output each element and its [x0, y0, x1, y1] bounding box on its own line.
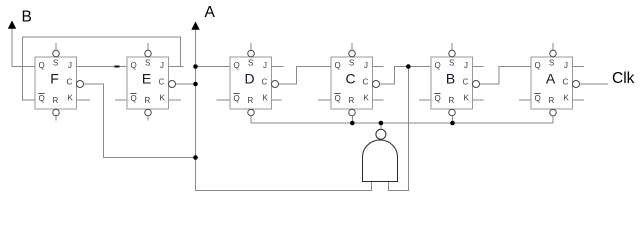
svg-text:F: F: [50, 71, 59, 87]
svg-text:K: K: [364, 94, 370, 103]
svg-text:Q: Q: [535, 94, 541, 103]
svg-text:K: K: [464, 94, 470, 103]
svg-text:J: J: [263, 61, 267, 70]
svg-text:C: C: [463, 78, 469, 87]
svg-text:S: S: [349, 59, 354, 68]
svg-text:Q: Q: [234, 94, 240, 103]
svg-text:J: J: [564, 61, 568, 70]
svg-text:A: A: [205, 4, 216, 21]
svg-text:J: J: [464, 61, 468, 70]
svg-text:S: S: [549, 59, 554, 68]
svg-text:B: B: [22, 9, 32, 26]
svg-text:Q: Q: [335, 61, 341, 70]
svg-text:J: J: [364, 61, 368, 70]
svg-text:S: S: [248, 59, 253, 68]
svg-text:K: K: [160, 94, 166, 103]
svg-text:S: S: [53, 59, 58, 68]
svg-text:Clk: Clk: [612, 70, 635, 87]
svg-text:Q: Q: [131, 94, 137, 103]
svg-text:Q: Q: [535, 61, 541, 70]
svg-text:D: D: [244, 71, 254, 87]
svg-text:Q: Q: [39, 61, 45, 70]
svg-text:K: K: [564, 94, 570, 103]
svg-text:C: C: [363, 78, 369, 87]
svg-text:K: K: [68, 94, 74, 103]
svg-text:Q: Q: [131, 61, 137, 70]
svg-text:J: J: [160, 61, 164, 70]
svg-text:Q: Q: [435, 61, 441, 70]
svg-text:S: S: [449, 59, 454, 68]
svg-text:Q: Q: [234, 61, 240, 70]
svg-text:C: C: [67, 78, 73, 87]
svg-text:R: R: [549, 96, 555, 105]
svg-text:R: R: [248, 96, 254, 105]
svg-text:R: R: [449, 96, 455, 105]
svg-text:R: R: [53, 96, 59, 105]
svg-text:C: C: [563, 78, 569, 87]
svg-text:C: C: [262, 78, 268, 87]
svg-text:Q: Q: [39, 94, 45, 103]
svg-text:B: B: [446, 71, 455, 87]
svg-text:E: E: [142, 71, 151, 87]
svg-text:A: A: [546, 71, 556, 87]
svg-text:K: K: [263, 94, 269, 103]
svg-text:S: S: [145, 59, 150, 68]
svg-text:R: R: [349, 96, 355, 105]
svg-text:C: C: [345, 71, 355, 87]
svg-text:Q: Q: [435, 94, 441, 103]
svg-text:Q: Q: [335, 94, 341, 103]
svg-text:C: C: [159, 78, 165, 87]
svg-text:R: R: [145, 96, 151, 105]
svg-text:J: J: [68, 61, 72, 70]
